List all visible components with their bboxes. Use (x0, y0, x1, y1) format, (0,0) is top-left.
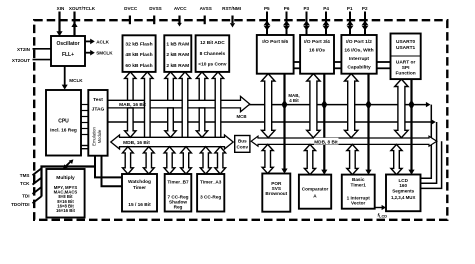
svg-text:SPI: SPI (402, 65, 410, 71)
svg-text:16×16 Bit: 16×16 Bit (56, 208, 76, 213)
svg-text:1 kB RAM: 1 kB RAM (166, 42, 189, 48)
svg-text:P3: P3 (303, 6, 309, 11)
svg-text:Brownout: Brownout (265, 191, 287, 196)
svg-text:Incl. 16 Reg: Incl. 16 Reg (50, 128, 77, 134)
svg-text:RST/NMI: RST/NMI (222, 6, 241, 11)
svg-text:USART1: USART1 (396, 45, 416, 51)
svg-text:XT2OUT: XT2OUT (12, 58, 30, 63)
svg-text:AVSS: AVSS (200, 6, 212, 11)
svg-text:2 kB RAM: 2 kB RAM (166, 52, 189, 58)
svg-text:P2: P2 (362, 6, 368, 11)
svg-text:XIN: XIN (57, 6, 65, 11)
svg-text:AVCC: AVCC (174, 6, 187, 11)
svg-text:P6: P6 (284, 6, 290, 11)
svg-text:P1: P1 (347, 6, 353, 11)
svg-text:Bus: Bus (238, 139, 247, 144)
svg-text:Oscillator: Oscillator (56, 41, 79, 47)
svg-text:12 Bit ADC: 12 Bit ADC (200, 40, 225, 46)
svg-text:XT2IN: XT2IN (17, 47, 31, 52)
svg-text:Emulation: Emulation (91, 127, 96, 146)
svg-text:Function: Function (395, 71, 415, 77)
svg-text:JTAG: JTAG (92, 107, 105, 113)
svg-text:Segments: Segments (392, 189, 414, 194)
svg-text:FLL+: FLL+ (62, 52, 74, 58)
svg-text:DVCC: DVCC (124, 6, 138, 11)
svg-text:MDB, 16 Bit: MDB, 16 Bit (123, 140, 150, 146)
svg-text:32 kB Flash: 32 kB Flash (125, 42, 152, 48)
svg-text:15 / 16 Bit: 15 / 16 Bit (128, 202, 151, 208)
svg-text:Multiply: Multiply (56, 175, 75, 181)
svg-text:MCLK: MCLK (69, 78, 83, 83)
svg-text:MAB, 16 Bit: MAB, 16 Bit (119, 102, 146, 108)
svg-text:TDO/TDI: TDO/TDI (11, 202, 29, 207)
svg-text:160: 160 (399, 183, 407, 188)
svg-text:<10 µs Conv: <10 µs Conv (198, 62, 227, 68)
svg-text:USART0: USART0 (396, 39, 416, 45)
svg-text:Timer_A3: Timer_A3 (200, 180, 222, 185)
svg-text:Test: Test (93, 97, 103, 103)
svg-text:3 CC-Reg: 3 CC-Reg (200, 195, 221, 200)
svg-text:16 I/Os, With: 16 I/Os, With (344, 48, 373, 54)
svg-text:16 I/Os: 16 I/Os (309, 48, 325, 54)
svg-text:P4: P4 (323, 6, 329, 11)
svg-text:Vector: Vector (351, 201, 366, 206)
svg-text:Capability: Capability (347, 65, 371, 71)
svg-text:4 Bit: 4 Bit (289, 98, 299, 103)
svg-text:UART or: UART or (396, 60, 416, 66)
svg-text:Timer: Timer (133, 185, 146, 191)
svg-text:I/O Port 5/6: I/O Port 5/6 (262, 39, 288, 45)
svg-text:Timer1: Timer1 (351, 183, 367, 188)
svg-text:Timer_B7: Timer_B7 (167, 180, 189, 185)
svg-text:2 kB RAM: 2 kB RAM (166, 63, 189, 69)
svg-text:fLCD: fLCD (378, 213, 388, 219)
svg-text:I/O Port 3/4: I/O Port 3/4 (304, 39, 330, 45)
svg-text:TDI: TDI (22, 193, 29, 198)
svg-text:48 kB Flash: 48 kB Flash (125, 52, 152, 58)
svg-text:ACLK: ACLK (96, 39, 109, 44)
svg-text:SMCLK: SMCLK (96, 51, 113, 56)
svg-text:Watchdog: Watchdog (128, 179, 151, 185)
svg-text:TCK: TCK (20, 181, 30, 186)
svg-text:MCB: MCB (237, 114, 247, 119)
svg-text:Reg: Reg (174, 205, 183, 210)
svg-text:XOUT/TCLK: XOUT/TCLK (69, 6, 96, 11)
svg-text:Module: Module (97, 129, 102, 143)
svg-text:MDB, 8 Bit: MDB, 8 Bit (314, 139, 338, 144)
svg-text:Basic: Basic (352, 177, 365, 182)
svg-text:Comparator: Comparator (302, 187, 329, 192)
svg-text:P5: P5 (264, 6, 270, 11)
svg-text:60 kB Flash: 60 kB Flash (125, 63, 152, 69)
svg-text:8 Channels: 8 Channels (200, 51, 226, 57)
svg-text:Interrupt: Interrupt (349, 56, 369, 62)
svg-text:DVSS: DVSS (149, 6, 162, 11)
svg-text:TMS: TMS (20, 173, 30, 178)
svg-text:CPU: CPU (58, 119, 69, 125)
svg-text:I/O Port 1/2: I/O Port 1/2 (346, 39, 372, 45)
svg-text:Conv: Conv (237, 145, 249, 150)
svg-text:1,2,3,4 MUX: 1,2,3,4 MUX (391, 195, 415, 200)
